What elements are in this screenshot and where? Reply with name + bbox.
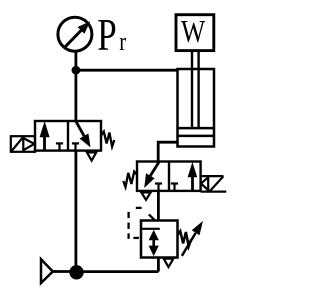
wire top junction to cylinder rod-side port <box>76 69 179 72</box>
RV pilot dashed line <box>129 208 142 239</box>
V2 left box: blocked port T <box>155 184 162 191</box>
RV internal seat line <box>141 228 160 230</box>
node A (top junction) <box>72 66 81 75</box>
V2 left box: flow arrow diagonal to vent <box>144 162 159 189</box>
RV drain vent triangle <box>164 259 174 267</box>
svg-text:P: P <box>97 9 116 60</box>
wire cylinder cap port to valve V2 <box>158 142 177 161</box>
piston rod (double line) <box>192 51 199 129</box>
V1 left box: flow arrow up <box>40 121 50 150</box>
cylinder C1 body <box>178 69 215 147</box>
valve V1 (3/2 directional) body <box>35 121 101 151</box>
wire gauge stem + main vertical to valve V1 <box>75 52 78 122</box>
wire V2 bottom port to relief valve <box>157 191 160 221</box>
V2 exhaust vent triangle <box>141 192 150 199</box>
pressure gauge Pr <box>58 17 92 51</box>
label Pr <box>97 9 126 60</box>
V1 left box: blocked port T <box>56 143 63 150</box>
RV adjustment arrow <box>182 221 203 256</box>
V2 solenoid-pilot actuator (right) <box>201 176 227 192</box>
V2 right box: blocked port T <box>171 184 178 191</box>
valve V2 (3/2 directional) body <box>137 162 201 191</box>
piston (two bands) <box>178 128 215 136</box>
V1 solenoid-pilot actuator (left) <box>11 136 35 152</box>
V2 right box: flow arrow up <box>188 162 198 191</box>
V1 exhaust vent triangle <box>87 152 96 160</box>
wire V1 bottom port to bottom junction <box>75 151 78 272</box>
V1 right box: blocked port T <box>72 143 79 150</box>
svg-text:r: r <box>119 28 126 57</box>
node B (bottom junction) <box>69 265 83 279</box>
source triangle (supply) <box>41 259 70 283</box>
relief valve RV body <box>141 221 178 258</box>
V2 spring (left) <box>123 172 137 187</box>
svg-text:W: W <box>181 14 206 49</box>
load W box <box>176 15 214 51</box>
wire bottom line <box>76 270 158 273</box>
RV double-headed flow arrow <box>149 230 159 256</box>
wire RV outlet to bottom line <box>157 258 160 272</box>
RV pilot tick (solid) <box>149 214 156 220</box>
RV spring (right) <box>178 231 192 246</box>
V1 spring (right) <box>101 132 114 147</box>
V1 right box: flow arrow diagonal to vent <box>76 121 91 147</box>
